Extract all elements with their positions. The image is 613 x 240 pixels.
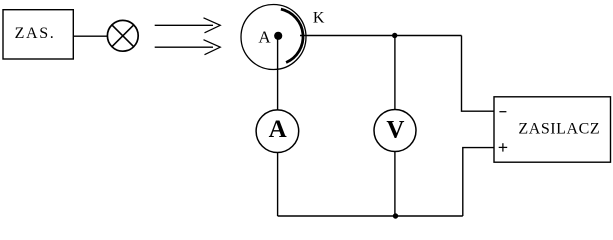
svg-text:V: V (386, 117, 404, 144)
box ZASILACZ (supply) (494, 97, 611, 162)
lamp L1 (circle with X) (107, 20, 138, 51)
bottom wire (278, 215, 463, 217)
cathode K (arc electrode) (281, 9, 303, 62)
ammeter A1 (256, 110, 299, 153)
wire junction down to voltmeter (394, 36, 396, 110)
junction top (392, 33, 397, 38)
light ray arrow 2 (155, 46, 213, 48)
wire cathode to right (300, 35, 462, 37)
svg-text:ZASILACZ: ZASILACZ (518, 120, 600, 137)
svg-text:A: A (258, 27, 271, 46)
wire voltmeter to bottom (394, 152, 396, 217)
svg-text:K: K (313, 10, 325, 27)
anode dot (274, 32, 282, 40)
wire ammeter to bottom (277, 153, 279, 217)
wire anode down to ammeter (277, 39, 279, 110)
wire plus terminal to bottom (463, 148, 494, 216)
phototube envelope (241, 5, 306, 70)
svg-text:ZAS.: ZAS. (15, 25, 56, 42)
wire right side down (462, 36, 495, 112)
plus terminal (499, 146, 508, 148)
wire ZAS to lamp (73, 35, 107, 37)
box ZAS. (lamp power supply) (3, 10, 73, 59)
minus terminal (499, 111, 506, 113)
junction bottom (393, 213, 398, 218)
light ray arrow 1 (155, 24, 213, 26)
svg-text:A: A (269, 116, 287, 143)
voltmeter V1 (374, 110, 416, 152)
